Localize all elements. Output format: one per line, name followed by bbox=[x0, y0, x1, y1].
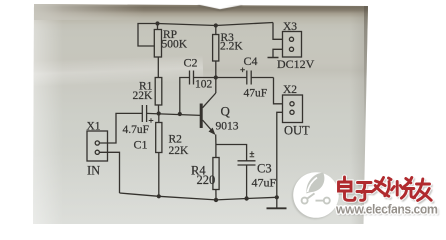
label 22K (R2) bbox=[169, 145, 190, 157]
wire X2 pin2 to rail end bbox=[277, 112, 283, 197]
node R4 at rail bbox=[214, 198, 218, 202]
capacitor C2 102 bbox=[180, 71, 216, 115]
label C1 bbox=[134, 138, 148, 152]
svg-text:C2: C2 bbox=[184, 56, 198, 70]
label X1 bbox=[87, 121, 101, 133]
svg-text:47uF: 47uF bbox=[244, 88, 268, 100]
label R2 bbox=[169, 134, 183, 146]
label C2 bbox=[184, 56, 198, 70]
label 220 bbox=[197, 173, 216, 187]
wire X1 pin1 to C1 bbox=[99, 113, 142, 143]
label X2 bbox=[283, 84, 297, 96]
svg-text:IN: IN bbox=[87, 164, 100, 178]
wire ground rail bbox=[120, 193, 277, 200]
label 4.7uF bbox=[123, 124, 150, 136]
node base junction bbox=[157, 111, 161, 115]
label RP bbox=[163, 29, 177, 41]
elecfans logo white circle badge bbox=[292, 172, 339, 219]
label C3 bbox=[257, 162, 272, 176]
label 47uF (C3) bbox=[252, 176, 277, 190]
node junction at RP top bbox=[155, 21, 159, 25]
capacitor C3 47uF bbox=[238, 151, 256, 198]
capacitor C4 47uF bbox=[216, 68, 274, 85]
label R1 bbox=[139, 81, 153, 93]
node C3 at rail bbox=[244, 196, 248, 200]
wire R1 to base node bbox=[158, 105, 160, 114]
resistor R4 bbox=[213, 145, 219, 200]
wire top rail to X3 pin1 bbox=[273, 23, 283, 40]
label 102 bbox=[195, 79, 213, 91]
ground symbol bbox=[267, 197, 287, 208]
svg-text:X1: X1 bbox=[87, 121, 101, 133]
connector X2 bbox=[283, 95, 303, 123]
label R4 bbox=[191, 164, 206, 178]
potentiometer RP 500K bbox=[138, 24, 162, 58]
capacitor C1 4.7uF bbox=[142, 105, 153, 123]
resistor R3 bbox=[213, 26, 219, 78]
label C4 bbox=[244, 54, 258, 68]
svg-text:www.elecfans.com: www.elecfans.com bbox=[335, 203, 438, 217]
node R2 at rail bbox=[157, 194, 161, 198]
logo text www.elecfans.com bbox=[335, 203, 439, 219]
label R3 bbox=[221, 32, 235, 44]
node collector junction bbox=[214, 75, 218, 79]
label X3 bbox=[283, 21, 297, 33]
svg-text:X2: X2 bbox=[283, 84, 297, 96]
svg-text:2.2K: 2.2K bbox=[220, 41, 243, 53]
svg-text:9013: 9013 bbox=[216, 121, 239, 133]
svg-text:22K: 22K bbox=[169, 145, 190, 157]
label 47uF (C4) bbox=[244, 88, 268, 100]
svg-text:OUT: OUT bbox=[284, 124, 310, 138]
node junction at R3 top bbox=[214, 23, 218, 27]
svg-text:220: 220 bbox=[197, 173, 216, 187]
wire base line bbox=[147, 113, 201, 115]
svg-text:R2: R2 bbox=[169, 134, 183, 146]
paper top edge notch bbox=[198, 5, 242, 11]
wire X3 pin2 to ground stub bbox=[268, 49, 283, 57]
svg-text:C3: C3 bbox=[257, 162, 272, 176]
svg-text:C4: C4 bbox=[244, 54, 258, 68]
label Q bbox=[221, 104, 231, 119]
connector X3 bbox=[283, 32, 302, 58]
svg-text:500K: 500K bbox=[162, 39, 188, 51]
wire X1 pin2 to ground rail bbox=[99, 152, 119, 193]
svg-text:Q: Q bbox=[221, 104, 231, 119]
label 22K (R1) bbox=[133, 90, 154, 102]
label 9013 bbox=[216, 121, 239, 133]
svg-text:4.7uF: 4.7uF bbox=[123, 124, 150, 136]
wire C4 to X2 pin1 bbox=[274, 78, 283, 104]
svg-text:102: 102 bbox=[195, 79, 213, 91]
svg-text:X3: X3 bbox=[283, 21, 297, 33]
label 500K bbox=[162, 39, 188, 51]
node rail end bbox=[275, 195, 279, 199]
svg-text:22K: 22K bbox=[133, 90, 154, 102]
wire emitter branch to C3 bbox=[216, 145, 247, 161]
svg-text:DC12V: DC12V bbox=[277, 57, 315, 71]
label OUT bbox=[284, 124, 310, 138]
resistor R2 bbox=[156, 114, 162, 197]
wire RP to R1 bbox=[157, 57, 159, 78]
label IN bbox=[87, 164, 100, 178]
label 2.2K bbox=[220, 41, 243, 53]
transistor Q 9013 bbox=[201, 78, 216, 145]
resistor R1 bbox=[155, 78, 162, 106]
wire top supply rail bbox=[158, 23, 274, 26]
connector X1 bbox=[87, 131, 108, 161]
svg-text:47uF: 47uF bbox=[252, 176, 277, 190]
label DC12V bbox=[277, 57, 315, 71]
svg-text:C1: C1 bbox=[134, 138, 148, 152]
node C2 junction on base line bbox=[178, 112, 182, 116]
